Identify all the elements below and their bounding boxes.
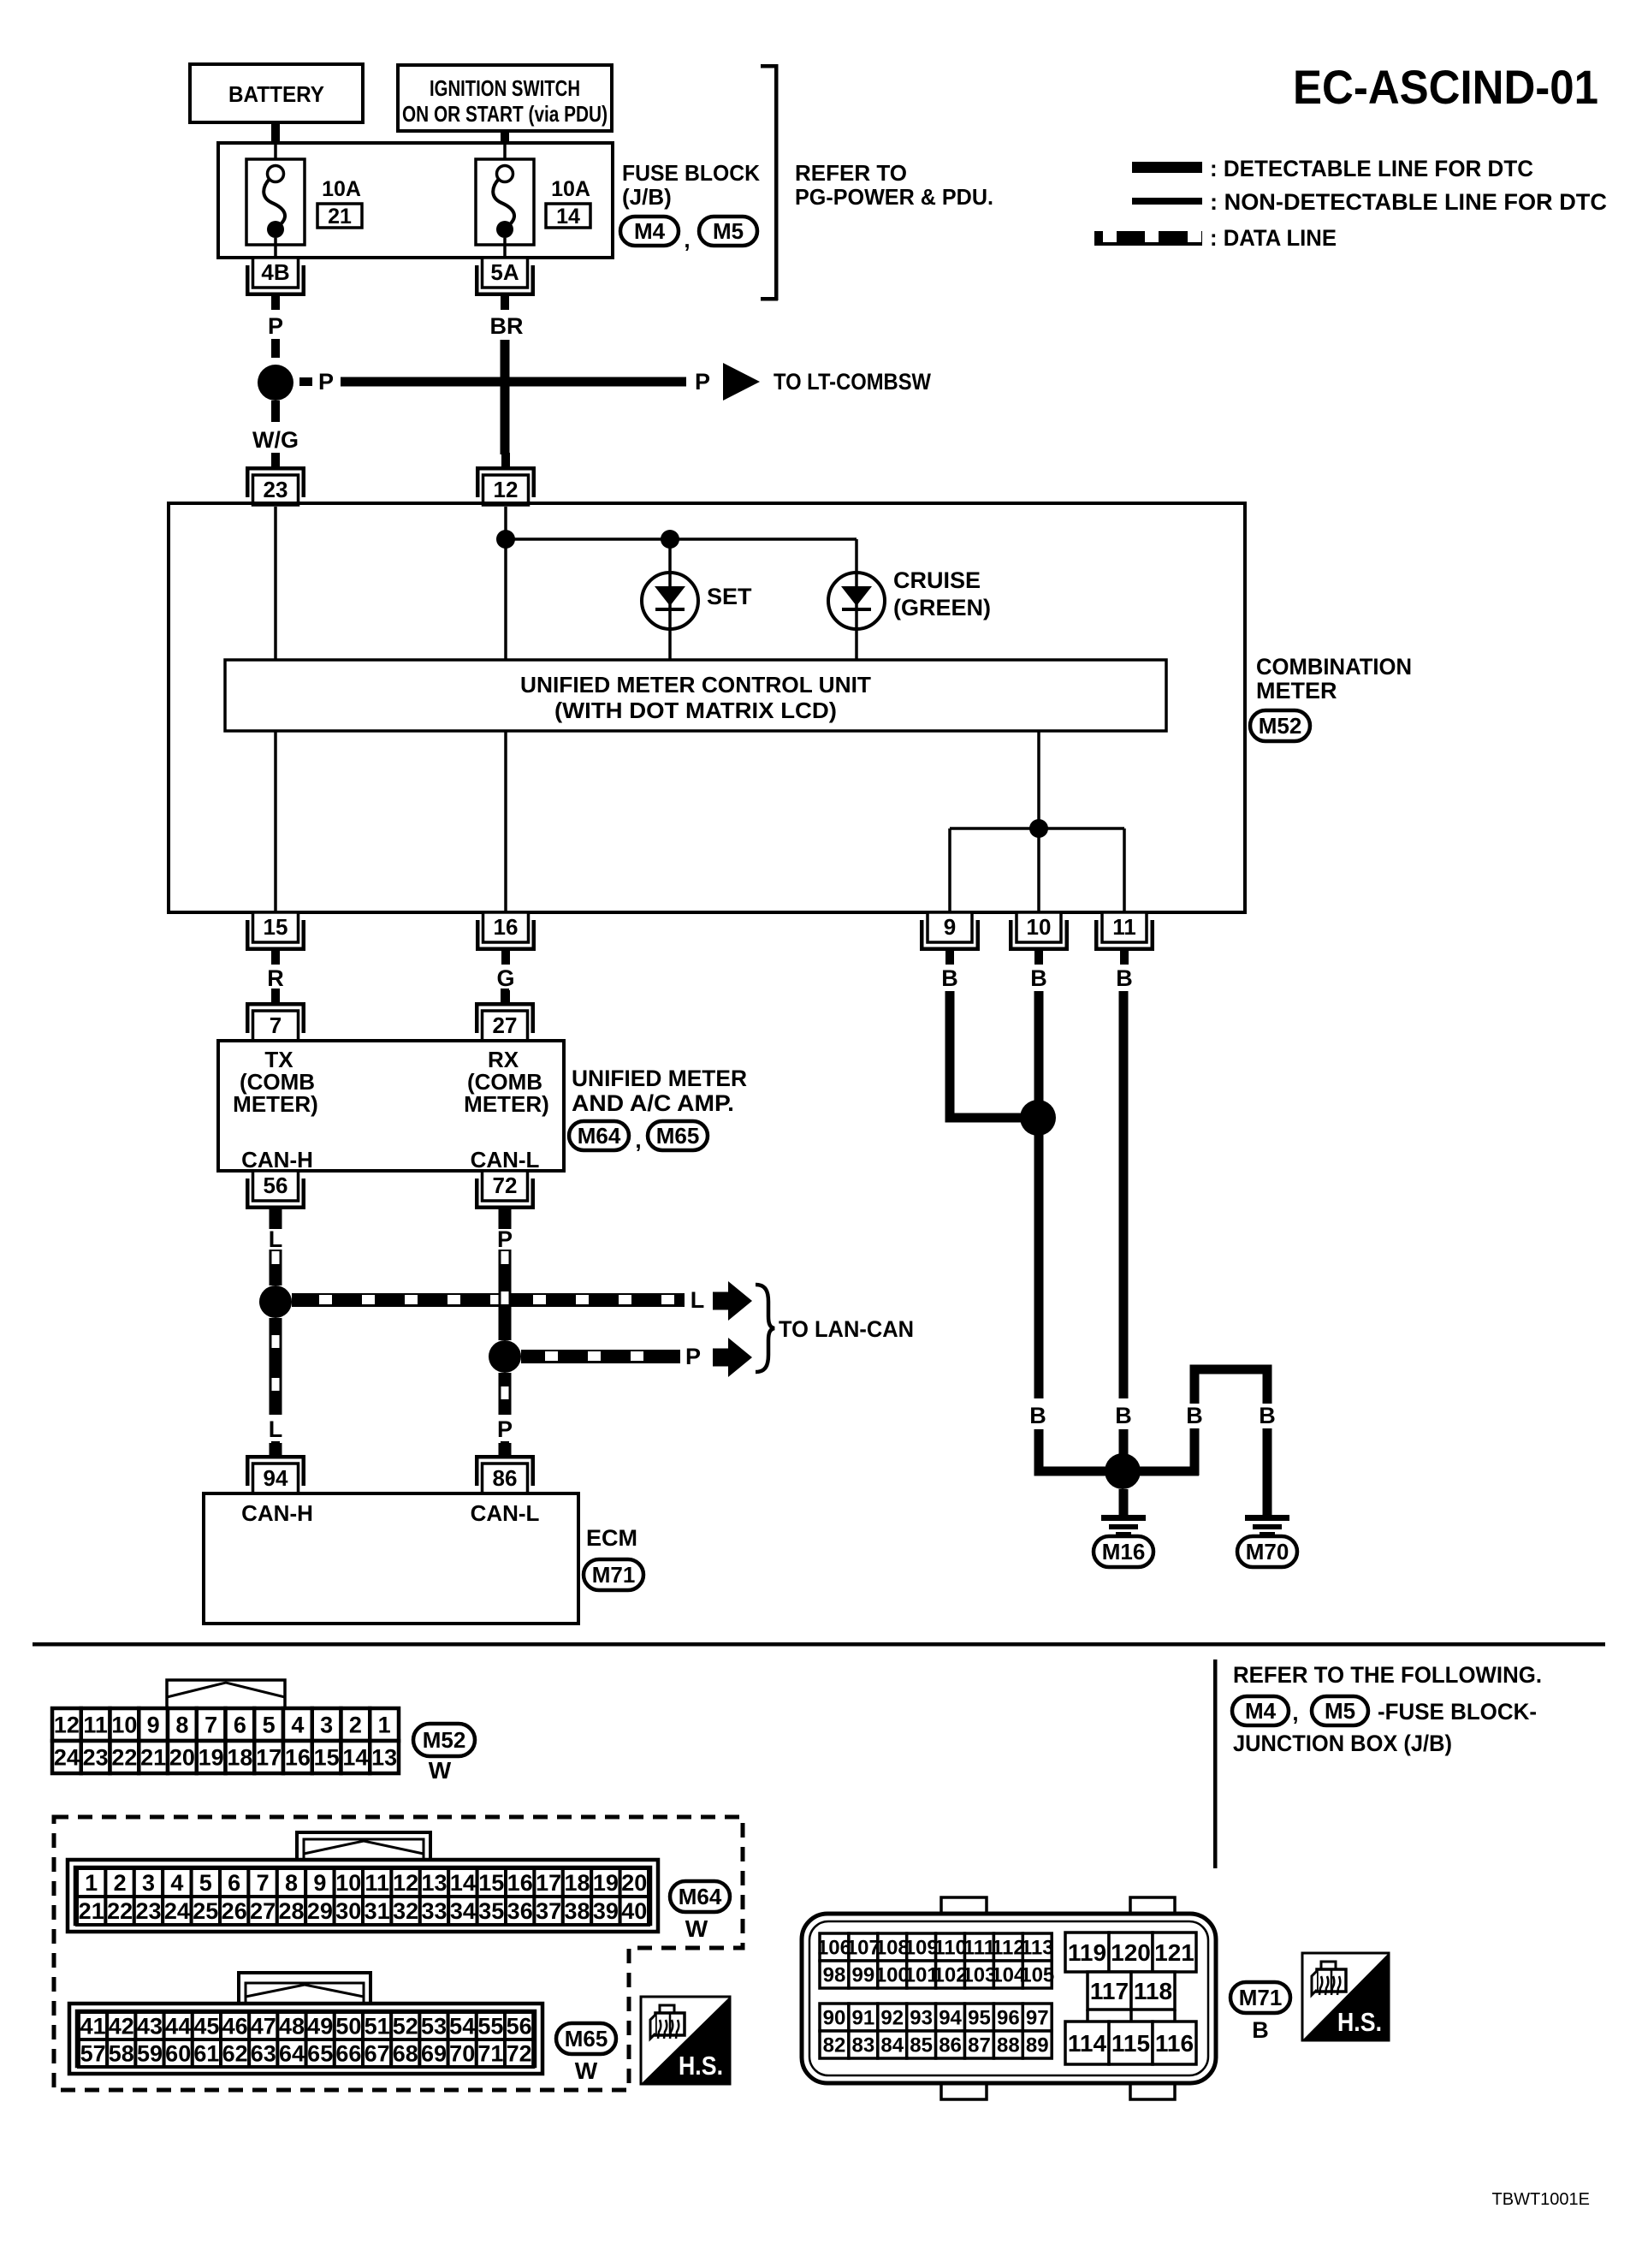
svg-text:21: 21 [140, 1744, 166, 1770]
svg-text:TBWT1001E: TBWT1001E [1492, 2190, 1590, 2209]
svg-text:9: 9 [313, 1870, 326, 1896]
svg-text:69: 69 [421, 2040, 447, 2066]
svg-text:67: 67 [365, 2040, 390, 2066]
svg-text:13: 13 [371, 1744, 397, 1770]
svg-text:43: 43 [137, 2013, 163, 2039]
svg-text:M4: M4 [1245, 1698, 1277, 1724]
svg-text:M5: M5 [713, 218, 744, 244]
svg-text:22: 22 [111, 1744, 137, 1770]
svg-text:38: 38 [564, 1898, 590, 1924]
svg-text:7: 7 [270, 1012, 282, 1038]
svg-text:14: 14 [342, 1744, 368, 1770]
svg-text:M70: M70 [1246, 1539, 1289, 1564]
svg-text:97: 97 [1026, 2006, 1049, 2029]
svg-text:98: 98 [823, 1963, 846, 1986]
svg-text:B: B [1259, 1403, 1276, 1428]
svg-text:W: W [575, 2057, 598, 2084]
svg-text:17: 17 [536, 1870, 561, 1896]
svg-text:46: 46 [222, 2013, 248, 2039]
svg-text:37: 37 [536, 1898, 561, 1924]
svg-text:85: 85 [910, 2033, 933, 2057]
svg-text:27: 27 [493, 1012, 518, 1038]
svg-text:94: 94 [264, 1465, 288, 1491]
svg-text:: NON-DETECTABLE LINE FOR DTC: : NON-DETECTABLE LINE FOR DTC [1210, 189, 1607, 215]
svg-text:90: 90 [823, 2006, 846, 2029]
svg-text:10: 10 [1027, 914, 1052, 940]
svg-text:REFER TO: REFER TO [795, 160, 907, 186]
svg-text:22: 22 [107, 1898, 133, 1924]
svg-text:32: 32 [393, 1898, 418, 1924]
svg-text:86: 86 [939, 2033, 962, 2057]
svg-text:P: P [497, 1416, 513, 1442]
svg-text:51: 51 [365, 2013, 390, 2039]
svg-text:CAN-L: CAN-L [471, 1500, 540, 1526]
svg-text:16: 16 [494, 914, 519, 940]
svg-text:91: 91 [851, 2006, 874, 2029]
svg-text:28: 28 [278, 1898, 304, 1924]
svg-text:15: 15 [264, 914, 288, 940]
svg-text:23: 23 [264, 477, 288, 502]
svg-text:19: 19 [199, 1744, 224, 1770]
svg-text:18: 18 [227, 1744, 252, 1770]
svg-text:4: 4 [291, 1712, 304, 1737]
svg-text:24: 24 [164, 1898, 190, 1924]
svg-text:48: 48 [279, 2013, 305, 2039]
svg-text:3: 3 [320, 1712, 333, 1737]
svg-text:BR: BR [490, 313, 524, 339]
svg-text:94: 94 [939, 2006, 962, 2029]
svg-text:54: 54 [449, 2013, 475, 2039]
svg-text:36: 36 [507, 1898, 533, 1924]
svg-text:P: P [318, 369, 334, 395]
svg-text:65: 65 [307, 2040, 333, 2066]
svg-text:M52: M52 [423, 1727, 466, 1753]
svg-text:21: 21 [328, 205, 352, 229]
svg-text:P: P [685, 1344, 701, 1369]
svg-text:70: 70 [449, 2040, 475, 2066]
svg-text:11: 11 [83, 1712, 108, 1737]
svg-text:50: 50 [335, 2013, 361, 2039]
svg-text:10: 10 [111, 1712, 137, 1737]
svg-text:60: 60 [165, 2040, 191, 2066]
svg-text:AND A/C AMP.: AND A/C AMP. [572, 1090, 734, 1116]
svg-text:7: 7 [257, 1870, 270, 1896]
svg-text:59: 59 [137, 2040, 163, 2066]
svg-text:39: 39 [593, 1898, 619, 1924]
svg-text:PG-POWER & PDU.: PG-POWER & PDU. [795, 184, 993, 210]
svg-text:TO LAN-CAN: TO LAN-CAN [779, 1316, 914, 1342]
svg-text:METER): METER) [464, 1091, 549, 1117]
svg-text:68: 68 [393, 2040, 418, 2066]
svg-text:114: 114 [1068, 2030, 1107, 2057]
svg-text:ON OR START (via PDU): ON OR START (via PDU) [402, 101, 608, 127]
svg-text:B: B [1252, 2017, 1269, 2043]
svg-text:REFER TO THE FOLLOWING.: REFER TO THE FOLLOWING. [1233, 1662, 1542, 1688]
svg-text:UNIFIED METER CONTROL UNIT: UNIFIED METER CONTROL UNIT [520, 672, 871, 698]
svg-text:M4: M4 [634, 218, 666, 244]
svg-text:11: 11 [1112, 914, 1136, 940]
svg-text:45: 45 [193, 2013, 219, 2039]
svg-text:12: 12 [393, 1870, 418, 1896]
svg-text:83: 83 [851, 2033, 874, 2057]
svg-text:3: 3 [142, 1870, 155, 1896]
svg-text:M65: M65 [656, 1123, 700, 1149]
svg-text:23: 23 [83, 1744, 109, 1770]
svg-text:110: 110 [934, 1936, 967, 1959]
svg-text:72: 72 [493, 1173, 518, 1198]
svg-text:9: 9 [147, 1712, 160, 1737]
svg-text:56: 56 [507, 2013, 532, 2039]
svg-text:44: 44 [165, 2013, 191, 2039]
svg-text:13: 13 [421, 1870, 447, 1896]
svg-text:10: 10 [335, 1870, 361, 1896]
svg-text:P: P [268, 313, 283, 339]
svg-text:56: 56 [264, 1173, 288, 1198]
svg-text:CAN-H: CAN-H [241, 1500, 313, 1526]
svg-text:B: B [1029, 1403, 1046, 1428]
svg-text:62: 62 [222, 2040, 248, 2066]
svg-text:4: 4 [170, 1870, 183, 1896]
svg-text:W: W [429, 1757, 452, 1784]
svg-text:15: 15 [314, 1744, 340, 1770]
svg-text:METER): METER) [233, 1091, 318, 1117]
svg-text:L: L [691, 1287, 705, 1313]
svg-text:5: 5 [199, 1870, 212, 1896]
svg-text:27: 27 [250, 1898, 276, 1924]
svg-text:34: 34 [450, 1898, 476, 1924]
svg-text:33: 33 [421, 1898, 447, 1924]
svg-text:BATTERY: BATTERY [228, 81, 324, 107]
svg-text:1: 1 [378, 1712, 391, 1737]
svg-text:24: 24 [54, 1744, 80, 1770]
svg-text:55: 55 [477, 2013, 503, 2039]
svg-text:(GREEN): (GREEN) [893, 595, 991, 620]
svg-text:92: 92 [880, 2006, 904, 2029]
svg-text:G: G [496, 965, 514, 991]
svg-text:42: 42 [109, 2013, 134, 2039]
svg-text:ECM: ECM [586, 1525, 637, 1551]
svg-text:,: , [1292, 1700, 1298, 1725]
svg-text:64: 64 [279, 2040, 305, 2066]
svg-text:86: 86 [493, 1465, 518, 1491]
svg-text:M5: M5 [1325, 1698, 1355, 1724]
svg-text:71: 71 [477, 2040, 503, 2066]
svg-text:M71: M71 [1239, 1985, 1283, 2010]
svg-text:5A: 5A [490, 259, 519, 285]
svg-text:B: B [1115, 1403, 1132, 1428]
svg-text:88: 88 [997, 2033, 1020, 2057]
svg-text:9: 9 [944, 914, 956, 940]
svg-text:58: 58 [109, 2040, 134, 2066]
svg-text:TO LT-COMBSW: TO LT-COMBSW [774, 369, 931, 395]
svg-text:57: 57 [80, 2040, 106, 2066]
svg-text:M64: M64 [578, 1123, 621, 1149]
svg-text:11: 11 [365, 1870, 389, 1896]
svg-text:H.S.: H.S. [679, 2051, 723, 2081]
svg-text:115: 115 [1111, 2030, 1150, 2057]
svg-text:40: 40 [621, 1898, 647, 1924]
svg-text:53: 53 [421, 2013, 447, 2039]
svg-text:23: 23 [135, 1898, 161, 1924]
svg-text:82: 82 [823, 2033, 846, 2057]
svg-text:63: 63 [251, 2040, 276, 2066]
svg-text:89: 89 [1026, 2033, 1049, 2057]
svg-text:95: 95 [968, 2006, 991, 2029]
svg-text:25: 25 [193, 1898, 218, 1924]
svg-text:IGNITION SWITCH: IGNITION SWITCH [430, 75, 580, 101]
svg-text:: DATA LINE: : DATA LINE [1210, 225, 1337, 251]
svg-text:8: 8 [175, 1712, 188, 1737]
svg-text:47: 47 [251, 2013, 276, 2039]
svg-text:B: B [1030, 965, 1047, 991]
svg-text:87: 87 [968, 2033, 991, 2057]
svg-text:6: 6 [228, 1870, 240, 1896]
svg-text:M64: M64 [679, 1884, 722, 1909]
svg-text:18: 18 [564, 1870, 590, 1896]
svg-text:49: 49 [307, 2013, 333, 2039]
svg-text:5: 5 [263, 1712, 276, 1737]
svg-text:1: 1 [85, 1870, 98, 1896]
svg-text:31: 31 [365, 1898, 390, 1924]
svg-text:6: 6 [234, 1712, 246, 1737]
svg-text:M16: M16 [1102, 1539, 1146, 1564]
svg-text:15: 15 [478, 1870, 504, 1896]
svg-text:M65: M65 [565, 2026, 608, 2051]
svg-text:8: 8 [285, 1870, 298, 1896]
svg-text:2: 2 [114, 1870, 127, 1896]
svg-text:111: 111 [963, 1936, 995, 1959]
svg-text:30: 30 [335, 1898, 361, 1924]
svg-text:113: 113 [1021, 1936, 1054, 1959]
svg-text:26: 26 [222, 1898, 247, 1924]
svg-text:61: 61 [193, 2040, 219, 2066]
svg-text:66: 66 [335, 2040, 361, 2066]
svg-text:P: P [695, 369, 710, 395]
svg-text:52: 52 [393, 2013, 418, 2039]
svg-text:10A: 10A [322, 177, 361, 201]
svg-text:16: 16 [285, 1744, 311, 1770]
svg-text:M52: M52 [1259, 713, 1302, 739]
svg-text:W: W [685, 1915, 708, 1942]
svg-text:P: P [497, 1226, 513, 1252]
svg-text:CAN-L: CAN-L [471, 1147, 540, 1173]
svg-text:(WITH DOT MATRIX LCD): (WITH DOT MATRIX LCD) [554, 698, 837, 723]
svg-text:117: 117 [1090, 1978, 1129, 2004]
svg-text:L: L [269, 1416, 283, 1442]
svg-text:EC-ASCIND-01: EC-ASCIND-01 [1293, 60, 1598, 114]
svg-text:CRUISE: CRUISE [893, 567, 981, 593]
svg-text:20: 20 [621, 1870, 647, 1896]
svg-text:COMBINATION: COMBINATION [1256, 654, 1412, 680]
svg-text:118: 118 [1134, 1978, 1172, 2004]
svg-text:SET: SET [707, 584, 752, 609]
svg-text:M71: M71 [592, 1562, 636, 1588]
svg-text:R: R [267, 965, 284, 991]
svg-text:12: 12 [494, 477, 519, 502]
svg-text:B: B [1116, 965, 1133, 991]
svg-text:L: L [269, 1226, 283, 1252]
svg-text:JUNCTION BOX (J/B): JUNCTION BOX (J/B) [1233, 1731, 1452, 1756]
svg-text:19: 19 [593, 1870, 619, 1896]
svg-text:2: 2 [349, 1712, 362, 1737]
svg-text:116: 116 [1155, 2030, 1194, 2057]
svg-text:FUSE BLOCK: FUSE BLOCK [622, 160, 760, 186]
svg-text:CAN-H: CAN-H [241, 1147, 313, 1173]
svg-text:121: 121 [1154, 1939, 1194, 1966]
svg-text:7: 7 [204, 1712, 217, 1737]
svg-text:105: 105 [1020, 1963, 1054, 1986]
svg-text:UNIFIED METER: UNIFIED METER [572, 1066, 747, 1091]
svg-text:119: 119 [1068, 1939, 1106, 1966]
svg-text:41: 41 [80, 2013, 106, 2039]
svg-text:99: 99 [851, 1963, 874, 1986]
svg-text:W/G: W/G [252, 427, 299, 453]
svg-text:10A: 10A [551, 177, 590, 201]
svg-text:14: 14 [450, 1870, 476, 1896]
svg-text:112: 112 [992, 1936, 1025, 1959]
svg-text:14: 14 [556, 205, 580, 229]
svg-text:,: , [635, 1127, 641, 1153]
svg-text:B: B [1186, 1403, 1203, 1428]
svg-text:93: 93 [910, 2006, 933, 2029]
svg-text:72: 72 [507, 2040, 532, 2066]
svg-text:84: 84 [880, 2033, 904, 2057]
svg-text:B: B [941, 965, 958, 991]
svg-text:METER: METER [1256, 678, 1337, 704]
svg-text:35: 35 [478, 1898, 504, 1924]
svg-text:16: 16 [507, 1870, 533, 1896]
svg-text:21: 21 [79, 1898, 104, 1924]
svg-text:,: , [684, 227, 690, 252]
svg-text:(J/B): (J/B) [622, 184, 672, 210]
svg-text:29: 29 [307, 1898, 333, 1924]
svg-text:: DETECTABLE LINE FOR DTC: : DETECTABLE LINE FOR DTC [1210, 156, 1533, 181]
svg-text:H.S.: H.S. [1337, 2007, 1382, 2037]
svg-text:-FUSE BLOCK-: -FUSE BLOCK- [1378, 1699, 1537, 1725]
svg-text:4B: 4B [261, 259, 289, 285]
svg-text:17: 17 [256, 1744, 282, 1770]
svg-text:96: 96 [997, 2006, 1020, 2029]
svg-text:12: 12 [54, 1712, 80, 1737]
svg-text:120: 120 [1111, 1939, 1151, 1966]
svg-text:20: 20 [169, 1744, 195, 1770]
